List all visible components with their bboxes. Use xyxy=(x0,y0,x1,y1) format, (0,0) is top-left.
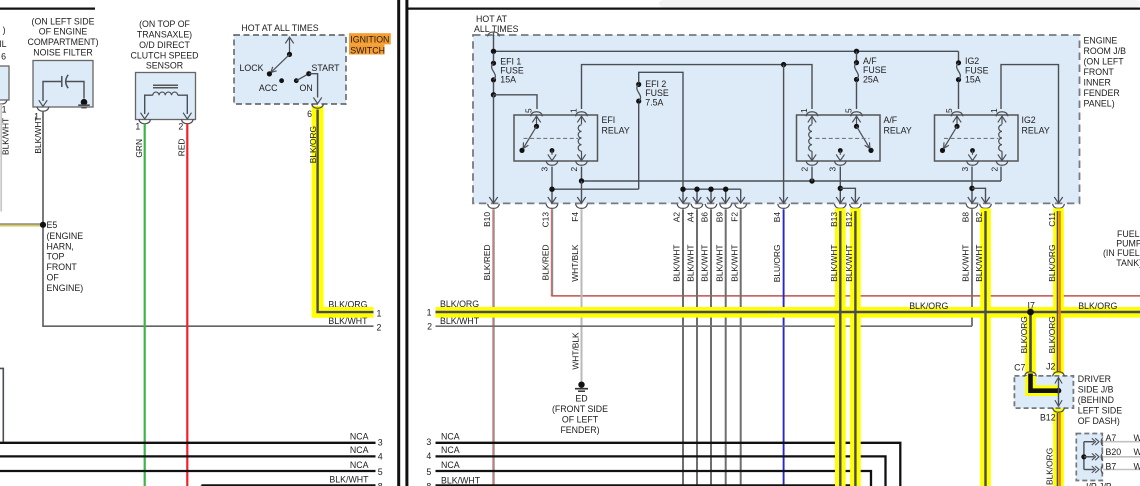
svg-text:ACC: ACC xyxy=(259,83,278,93)
svg-text:8: 8 xyxy=(378,482,383,486)
svg-text:J2: J2 xyxy=(1046,362,1055,372)
svg-text:15A: 15A xyxy=(500,75,516,85)
svg-text:3: 3 xyxy=(960,167,970,172)
svg-text:NCA: NCA xyxy=(350,445,369,455)
svg-text:F2: F2 xyxy=(729,212,739,222)
svg-text:2: 2 xyxy=(178,121,183,131)
svg-text:BLK/WHT: BLK/WHT xyxy=(714,245,724,282)
svg-text:COMPARTMENT): COMPARTMENT) xyxy=(27,37,98,47)
svg-text:C7: C7 xyxy=(1014,362,1025,372)
svg-text:BLK/WHT: BLK/WHT xyxy=(974,245,984,282)
svg-text:5: 5 xyxy=(378,467,383,477)
svg-text:F4: F4 xyxy=(570,212,580,222)
svg-text:EFI: EFI xyxy=(602,115,616,125)
svg-text:SWITCH: SWITCH xyxy=(350,46,385,56)
svg-text:W: W xyxy=(1134,461,1140,471)
svg-text:BLK/WHT: BLK/WHT xyxy=(441,475,481,485)
svg-text:ON: ON xyxy=(300,83,313,93)
svg-text:NCA: NCA xyxy=(350,460,369,470)
svg-text:A2: A2 xyxy=(672,212,682,223)
svg-text:1: 1 xyxy=(568,108,578,113)
svg-text:(FRONT SIDE: (FRONT SIDE xyxy=(552,404,608,414)
svg-text:START: START xyxy=(312,63,341,73)
svg-text:5: 5 xyxy=(843,108,853,113)
svg-text:5: 5 xyxy=(944,108,954,113)
svg-text:HOT AT ALL TIMES: HOT AT ALL TIMES xyxy=(241,23,318,33)
svg-text:BLU/ORG: BLU/ORG xyxy=(772,245,782,283)
svg-text:15A: 15A xyxy=(965,74,981,84)
svg-text:(ON LEFT: (ON LEFT xyxy=(1084,57,1125,67)
svg-text:OF LEFT: OF LEFT xyxy=(562,414,599,424)
svg-text:BLK/WHT: BLK/WHT xyxy=(700,245,710,282)
svg-text:B13: B13 xyxy=(829,212,839,227)
svg-text:4: 4 xyxy=(378,451,383,461)
svg-text:E5: E5 xyxy=(47,220,58,230)
svg-text:5: 5 xyxy=(426,467,431,477)
svg-text:IGNITION: IGNITION xyxy=(350,34,389,44)
svg-text:2: 2 xyxy=(569,167,579,172)
svg-text:BLK/ORG: BLK/ORG xyxy=(1019,316,1029,353)
svg-text:1: 1 xyxy=(135,121,140,131)
svg-text:FRONT: FRONT xyxy=(1084,67,1115,77)
svg-text:2: 2 xyxy=(377,323,382,333)
svg-text:1: 1 xyxy=(799,108,809,113)
svg-text:RELAY: RELAY xyxy=(884,125,912,135)
svg-text:OF DASH): OF DASH) xyxy=(1078,416,1120,426)
svg-text:B8: B8 xyxy=(961,212,971,223)
svg-text:OF: OF xyxy=(47,273,60,283)
svg-text:WHT/BLK: WHT/BLK xyxy=(570,332,580,370)
svg-text:PANEL): PANEL) xyxy=(1084,99,1115,109)
svg-text:8: 8 xyxy=(426,482,431,486)
svg-text:B12: B12 xyxy=(1040,412,1056,422)
svg-text:IL: IL xyxy=(0,39,7,49)
svg-text:ROOM J/B: ROOM J/B xyxy=(1084,46,1127,56)
svg-text:BLK/RED: BLK/RED xyxy=(541,245,551,281)
svg-text:W: W xyxy=(1134,447,1140,457)
svg-text:7.5A: 7.5A xyxy=(645,97,663,107)
svg-text:B6: B6 xyxy=(700,212,710,223)
svg-text:O/D DIRECT: O/D DIRECT xyxy=(139,40,190,50)
svg-text:FRONT: FRONT xyxy=(47,262,78,272)
svg-text:NCA: NCA xyxy=(441,431,460,441)
svg-text:BLK/WHT: BLK/WHT xyxy=(829,245,839,282)
svg-text:B2: B2 xyxy=(974,212,984,223)
svg-text:BLK/WHT: BLK/WHT xyxy=(844,245,854,282)
svg-text:NCA: NCA xyxy=(441,460,460,470)
svg-text:(ON LEFT SIDE: (ON LEFT SIDE xyxy=(32,16,95,26)
svg-text:): ) xyxy=(3,25,6,35)
svg-text:A7: A7 xyxy=(1106,433,1117,443)
svg-text:GRN: GRN xyxy=(134,139,144,158)
svg-text:LOCK: LOCK xyxy=(240,63,264,73)
svg-text:3: 3 xyxy=(426,437,431,447)
svg-text:CLUTCH SPEED: CLUTCH SPEED xyxy=(131,50,199,60)
svg-text:SIDE J/B: SIDE J/B xyxy=(1078,384,1114,394)
svg-text:I/P J/B: I/P J/B xyxy=(1086,482,1112,486)
svg-text:ED: ED xyxy=(575,394,587,404)
svg-text:BLK/WHT: BLK/WHT xyxy=(329,474,369,484)
svg-text:6: 6 xyxy=(307,109,312,119)
svg-text:BLK/ORG: BLK/ORG xyxy=(1047,316,1057,353)
svg-text:NOISE FILTER: NOISE FILTER xyxy=(33,48,92,58)
svg-text:HARN,: HARN, xyxy=(47,241,74,251)
svg-text:TOP: TOP xyxy=(47,252,65,262)
svg-text:FENDER: FENDER xyxy=(1084,88,1120,98)
svg-text:I7: I7 xyxy=(1028,301,1035,311)
svg-text:OF ENGINE: OF ENGINE xyxy=(39,27,88,37)
svg-text:3: 3 xyxy=(539,167,549,172)
svg-text:BLK/WHT: BLK/WHT xyxy=(1,118,11,155)
svg-text:BLK/WHT: BLK/WHT xyxy=(686,245,696,282)
svg-text:RED: RED xyxy=(176,139,186,157)
svg-text:SENSOR: SENSOR xyxy=(146,61,183,71)
svg-text:B20: B20 xyxy=(1106,447,1122,457)
svg-text:BLK/ORG: BLK/ORG xyxy=(1045,448,1055,485)
svg-text:IG2: IG2 xyxy=(1022,115,1036,125)
svg-text:1: 1 xyxy=(427,308,432,318)
svg-text:RELAY: RELAY xyxy=(602,125,630,135)
svg-text:FUEL: FUEL xyxy=(1117,229,1140,239)
svg-text:BLK/WHT: BLK/WHT xyxy=(672,245,682,282)
svg-text:BLK/ORG: BLK/ORG xyxy=(909,301,948,311)
svg-text:WHT/BLK: WHT/BLK xyxy=(570,244,580,282)
svg-text:HOT AT: HOT AT xyxy=(476,14,508,24)
svg-text:1: 1 xyxy=(2,104,7,114)
svg-text:2: 2 xyxy=(989,167,999,172)
svg-text:FENDER): FENDER) xyxy=(560,425,599,435)
svg-text:NCA: NCA xyxy=(350,432,369,442)
svg-text:TANK): TANK) xyxy=(1116,258,1140,268)
svg-text:2: 2 xyxy=(799,167,809,172)
svg-text:B10: B10 xyxy=(482,212,492,227)
svg-text:(IN FUEL: (IN FUEL xyxy=(1103,248,1140,258)
svg-text:3: 3 xyxy=(828,167,838,172)
svg-text:BLK/RED: BLK/RED xyxy=(482,245,492,281)
svg-text:B7: B7 xyxy=(1106,461,1117,471)
svg-text:TRANSAXLE): TRANSAXLE) xyxy=(137,30,192,40)
svg-text:2: 2 xyxy=(427,322,432,332)
svg-text:3: 3 xyxy=(378,437,383,447)
svg-text:C11: C11 xyxy=(1047,212,1057,227)
svg-text:B4: B4 xyxy=(772,212,782,223)
svg-text:4: 4 xyxy=(426,451,431,461)
svg-text:C13: C13 xyxy=(541,212,551,228)
svg-text:RELAY: RELAY xyxy=(1022,125,1050,135)
svg-text:ENGINE: ENGINE xyxy=(1084,35,1118,45)
svg-text:25A: 25A xyxy=(863,74,879,84)
svg-text:1: 1 xyxy=(989,108,999,113)
svg-text:W: W xyxy=(1134,433,1140,443)
svg-text:BLK/ORG: BLK/ORG xyxy=(308,126,318,163)
svg-text:6: 6 xyxy=(1,52,6,62)
svg-text:(ENGINE: (ENGINE xyxy=(47,231,84,241)
svg-text:(BEHIND: (BEHIND xyxy=(1078,395,1114,405)
svg-text:BLK/ORG: BLK/ORG xyxy=(1078,301,1117,311)
svg-text:BLK/ORG: BLK/ORG xyxy=(440,299,479,309)
svg-text:A4: A4 xyxy=(686,212,696,223)
svg-text:INNER: INNER xyxy=(1084,78,1111,88)
svg-text:BLK/WHT: BLK/WHT xyxy=(33,116,43,153)
svg-text:DRIVER: DRIVER xyxy=(1078,374,1111,384)
svg-text:B9: B9 xyxy=(714,212,724,223)
svg-text:A/F: A/F xyxy=(884,115,898,125)
svg-text:NCA: NCA xyxy=(441,445,460,455)
svg-text:B12: B12 xyxy=(844,212,854,227)
svg-text:BLK/ORG: BLK/ORG xyxy=(1047,245,1057,282)
svg-text:5: 5 xyxy=(523,108,533,113)
svg-text:ENGINE): ENGINE) xyxy=(47,283,84,293)
svg-text:BLK/WHT: BLK/WHT xyxy=(961,245,971,282)
svg-text:1: 1 xyxy=(377,308,382,318)
svg-text:PUMP: PUMP xyxy=(1116,239,1140,249)
svg-text:BLK/WHT: BLK/WHT xyxy=(729,245,739,282)
svg-text:LEFT SIDE: LEFT SIDE xyxy=(1078,405,1122,415)
svg-text:(ON TOP OF: (ON TOP OF xyxy=(139,19,190,29)
